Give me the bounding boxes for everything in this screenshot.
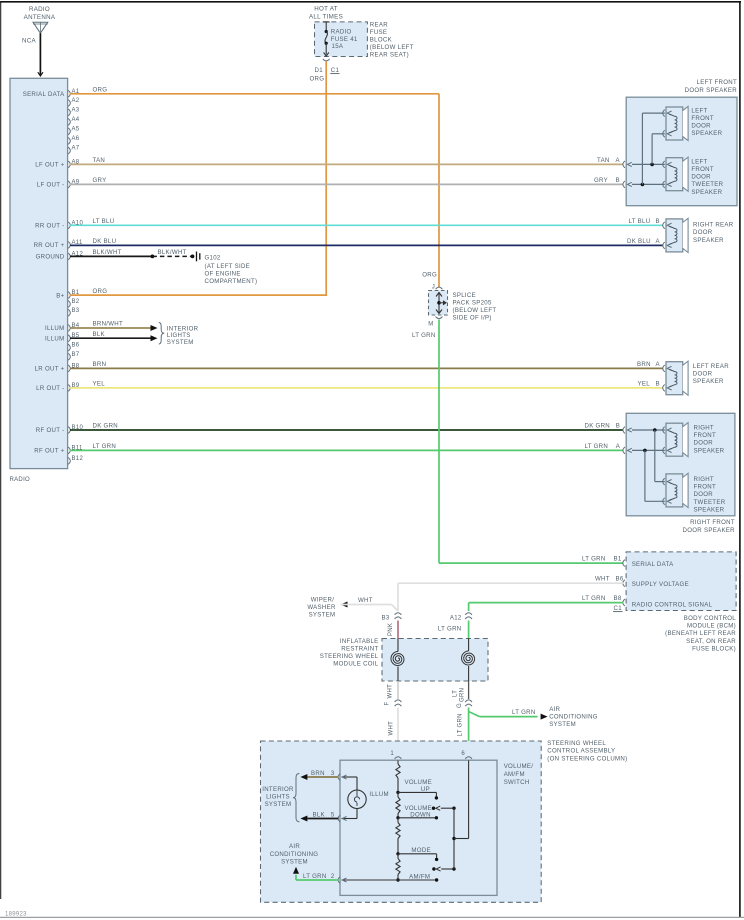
- svg-text:RR OUT -: RR OUT -: [35, 223, 64, 230]
- svg-text:DOOR: DOOR: [693, 229, 713, 236]
- steering wheel control assembly (dashed box): [261, 740, 628, 903]
- svg-text:FUSE BLOCK): FUSE BLOCK): [692, 645, 736, 652]
- svg-text:YEL: YEL: [638, 381, 651, 388]
- svg-text:B: B: [656, 218, 660, 225]
- switch pin 3 connector: [331, 771, 347, 780]
- svg-text:RADIO: RADIO: [29, 6, 50, 13]
- am/fm switch contact: [342, 873, 439, 881]
- svg-text:SERIAL DATA: SERIAL DATA: [632, 561, 674, 568]
- wiper washer system branch WHT: [307, 597, 398, 619]
- internal wiring right front speakers: [632, 428, 665, 501]
- wire LT GRN splice to BCM serial data: [439, 320, 623, 564]
- body control module BCM (dashed box): [626, 552, 736, 611]
- wire A8 TAN to left front door speaker: [70, 157, 623, 164]
- svg-text:DOOR SPEAKER: DOOR SPEAKER: [685, 87, 738, 94]
- svg-text:5: 5: [331, 813, 335, 819]
- radio pin A6: [68, 136, 80, 144]
- svg-text:SEAT, ON REAR: SEAT, ON REAR: [686, 638, 736, 645]
- svg-text:B8: B8: [614, 595, 622, 602]
- svg-text:LT BLU: LT BLU: [629, 218, 651, 225]
- wire A12 BLK/WHT ground lead: [70, 249, 194, 258]
- BCM pin B8 connector: [623, 599, 625, 606]
- svg-text:DK BLU: DK BLU: [93, 238, 117, 245]
- radio pin A12: [68, 251, 83, 259]
- interior lights system label (steering): [262, 774, 299, 822]
- ground G102: [197, 252, 258, 286]
- resistor R1: [396, 764, 400, 778]
- radio connector block (RADIO): [10, 78, 68, 483]
- svg-text:LR OUT +: LR OUT +: [35, 366, 65, 373]
- svg-text:LT GRN: LT GRN: [585, 443, 609, 450]
- svg-text:REAR SEAT): REAR SEAT): [370, 52, 409, 59]
- svg-text:RF OUT +: RF OUT +: [34, 448, 64, 455]
- resistor ladder top segment: [397, 761, 399, 765]
- svg-text:DOOR: DOOR: [691, 123, 711, 130]
- svg-text:DOOR: DOOR: [691, 174, 711, 181]
- svg-text:B1: B1: [614, 556, 622, 563]
- splice pack SP205: [412, 287, 448, 339]
- BCM pin B1 connector: [623, 560, 625, 567]
- svg-text:C1: C1: [331, 67, 340, 74]
- svg-text:189923: 189923: [5, 912, 27, 918]
- svg-text:FRONT: FRONT: [694, 484, 717, 491]
- wire B4 BRN/WHT to interior lights: [70, 321, 158, 331]
- coil spiral right (clockspring): [462, 639, 475, 682]
- svg-text:A3: A3: [72, 107, 80, 113]
- svg-text:SPEAKER: SPEAKER: [694, 506, 725, 513]
- radio pin label RR OUT -: [35, 223, 64, 230]
- lamp ILLUM: [348, 790, 389, 808]
- svg-text:A: A: [656, 361, 661, 368]
- svg-text:MODE: MODE: [411, 847, 430, 854]
- svg-text:B: B: [616, 177, 620, 184]
- svg-text:LT GRN: LT GRN: [303, 873, 327, 880]
- connector B at right front speaker box: [623, 427, 632, 434]
- node mode tap: [396, 852, 399, 855]
- svg-text:STEERING WHEEL: STEERING WHEEL: [320, 653, 379, 660]
- left front door tweeter speaker: [663, 157, 724, 196]
- svg-text:B: B: [616, 423, 620, 430]
- svg-text:(BELOW LEFT: (BELOW LEFT: [370, 44, 414, 51]
- svg-text:GRY: GRY: [93, 177, 107, 184]
- svg-text:ORG: ORG: [422, 272, 437, 279]
- left rear door speaker: [663, 361, 730, 395]
- svg-text:BLK/WHT: BLK/WHT: [158, 249, 187, 256]
- svg-text:B12: B12: [72, 456, 84, 462]
- svg-text:FUSE 41: FUSE 41: [331, 36, 358, 43]
- switch pin 2 connector: [331, 874, 347, 883]
- svg-text:SIDE OF I/P): SIDE OF I/P): [453, 315, 492, 322]
- svg-text:WHT: WHT: [358, 597, 373, 604]
- wire antenna NCA lead: [38, 33, 43, 76]
- svg-text:DOOR SPEAKER: DOOR SPEAKER: [683, 527, 736, 534]
- svg-text:B+: B+: [56, 292, 64, 299]
- svg-text:B2: B2: [72, 299, 80, 305]
- rear fuse block (dashed box): [309, 6, 367, 57]
- svg-text:GRY: GRY: [594, 177, 608, 184]
- radio pin B7: [68, 352, 80, 360]
- svg-text:(BELOW LEFT: (BELOW LEFT: [453, 307, 497, 314]
- splice pack SP205 note: [453, 292, 497, 322]
- radio pin B11: [68, 445, 83, 453]
- svg-text:2: 2: [331, 874, 335, 880]
- radio pin B10: [68, 425, 83, 433]
- wire B5 BLK to interior lights: [70, 331, 158, 341]
- resistor R3: [396, 823, 400, 839]
- svg-text:J: J: [432, 285, 435, 291]
- svg-text:LEFT FRONT: LEFT FRONT: [697, 79, 737, 86]
- svg-text:PNK: PNK: [388, 623, 394, 636]
- connector G: [465, 700, 472, 706]
- radio pin label ILLUM: [45, 335, 64, 342]
- svg-text:REAR: REAR: [370, 22, 388, 29]
- BCM location note: [665, 615, 736, 652]
- svg-text:CONDITIONING: CONDITIONING: [549, 714, 598, 721]
- svg-text:LF OUT -: LF OUT -: [37, 182, 65, 189]
- svg-text:LT GRN: LT GRN: [512, 709, 536, 716]
- svg-text:GROUND: GROUND: [36, 254, 65, 261]
- radio pin B8: [68, 363, 80, 371]
- wire ORG vertical A1 to splice SP205: [422, 94, 439, 291]
- radio pin label SERIAL DATA: [23, 91, 65, 98]
- svg-text:RESTRAINT: RESTRAINT: [341, 645, 378, 652]
- svg-text:SYSTEM: SYSTEM: [265, 801, 292, 808]
- svg-text:AIR: AIR: [289, 843, 300, 850]
- connector B at left front speaker box: [623, 181, 632, 188]
- svg-text:LT GRN: LT GRN: [438, 626, 462, 633]
- svg-text:WHT: WHT: [388, 721, 394, 736]
- svg-text:BLK: BLK: [313, 811, 325, 818]
- svg-text:A: A: [616, 443, 621, 450]
- radio pin A4: [68, 117, 80, 125]
- node volume up tap: [396, 791, 399, 794]
- svg-text:GRN: GRN: [460, 688, 466, 702]
- left front door speaker (woofer): [663, 106, 723, 140]
- svg-text:FRONT: FRONT: [691, 166, 714, 173]
- svg-text:A5: A5: [72, 126, 80, 132]
- switch common bus: [452, 761, 468, 870]
- radio pin label LR OUT +: [35, 366, 65, 373]
- wire R1 to volume-up tap: [397, 778, 399, 792]
- radio pin A5: [68, 126, 80, 134]
- svg-text:A7: A7: [72, 146, 80, 152]
- resistor R4: [396, 859, 400, 875]
- wire WHT to steering wheel switch pin 1: [388, 708, 398, 757]
- svg-text:A: A: [616, 157, 621, 164]
- svg-text:RADIO: RADIO: [331, 29, 352, 36]
- wire LT GRN to steering wheel switch pin 6: [458, 708, 469, 757]
- coil spiral left (clockspring): [391, 639, 404, 682]
- svg-text:(ON STEERING COLUMN): (ON STEERING COLUMN): [547, 755, 627, 762]
- svg-text:DOOR: DOOR: [694, 491, 714, 498]
- svg-text:BODY CONTROL: BODY CONTROL: [684, 615, 737, 622]
- resistor R2: [396, 797, 400, 814]
- radio pin label B+: [56, 292, 64, 299]
- svg-text:SPEAKER: SPEAKER: [691, 189, 722, 196]
- svg-text:M: M: [428, 322, 433, 328]
- wire B9 YEL to left rear door speaker: [70, 381, 663, 388]
- svg-text:B3: B3: [72, 308, 80, 314]
- svg-text:SUPPLY VOLTAGE: SUPPLY VOLTAGE: [632, 581, 689, 588]
- svg-text:RIGHT REAR: RIGHT REAR: [693, 222, 734, 229]
- svg-text:A2: A2: [72, 98, 80, 104]
- radio pin label LR OUT -: [36, 385, 64, 392]
- svg-text:ALL TIMES: ALL TIMES: [309, 14, 343, 21]
- svg-text:YEL: YEL: [93, 381, 106, 388]
- branch LT GRN to air conditioning system: [469, 706, 598, 728]
- svg-text:B: B: [656, 381, 660, 388]
- radio pin A8: [68, 159, 80, 167]
- svg-text:SWITCH: SWITCH: [504, 779, 530, 786]
- left front door speaker assembly box: [626, 79, 737, 206]
- connector A at left front speaker box: [623, 161, 632, 168]
- radio pin B3: [68, 308, 80, 316]
- radio pin A1: [68, 89, 80, 97]
- svg-text:ORG: ORG: [93, 288, 108, 295]
- svg-text:B6: B6: [72, 343, 80, 349]
- svg-text:ILLUM: ILLUM: [45, 325, 64, 332]
- svg-text:LT BLU: LT BLU: [93, 218, 115, 225]
- svg-text:SYSTEM: SYSTEM: [281, 858, 308, 865]
- svg-text:CONDITIONING: CONDITIONING: [270, 851, 319, 858]
- svg-text:TAN: TAN: [597, 157, 610, 164]
- svg-text:ORG: ORG: [310, 76, 325, 83]
- internal wiring left front speakers: [632, 113, 665, 186]
- svg-text:A: A: [656, 238, 661, 245]
- coil pigtail F WHT: [385, 681, 399, 706]
- connector F: [395, 700, 402, 706]
- svg-text:LT GRN: LT GRN: [582, 556, 606, 563]
- wire B1 ORG radio B+ to fuse: [70, 288, 327, 295]
- volume down switch contact: [398, 805, 456, 820]
- inflatable restraint steering wheel module coil (dashed box): [320, 638, 488, 681]
- svg-text:TWEETER: TWEETER: [691, 181, 723, 188]
- interior lights system brace and label: [159, 323, 199, 347]
- svg-text:A12: A12: [450, 616, 462, 622]
- svg-text:RIGHT: RIGHT: [694, 476, 714, 483]
- svg-text:DOOR: DOOR: [694, 440, 714, 447]
- svg-text:HOT AT: HOT AT: [314, 6, 338, 13]
- svg-text:CONTROL ASSEMBLY: CONTROL ASSEMBLY: [547, 748, 615, 755]
- svg-text:LT GRN: LT GRN: [412, 332, 436, 339]
- svg-text:SYSTEM: SYSTEM: [167, 339, 194, 346]
- wire PNK B3 to module coil: [388, 621, 398, 639]
- svg-text:LT GRN: LT GRN: [582, 595, 606, 602]
- connector B3 steering wheel module coil: [382, 613, 402, 622]
- svg-text:RADIO: RADIO: [10, 477, 31, 483]
- wire lamp to pin 3: [342, 777, 358, 790]
- svg-text:WASHER: WASHER: [307, 604, 336, 611]
- node am/fm tap: [396, 878, 399, 881]
- mode switch contact: [398, 847, 456, 871]
- wire A1 ORG serial data horizontal: [70, 87, 439, 94]
- radio pin B6: [68, 343, 80, 351]
- svg-text:LEFT REAR: LEFT REAR: [693, 363, 729, 370]
- wire LT GRN A12 to module coil: [438, 621, 469, 639]
- svg-text:B3: B3: [382, 616, 390, 622]
- svg-text:G: G: [457, 703, 463, 708]
- BCM pin B6 connector: [623, 580, 625, 587]
- wire B10 DK GRN to right front door speaker: [70, 423, 623, 430]
- svg-text:MODULE COIL: MODULE COIL: [333, 661, 379, 668]
- svg-text:FUSE: FUSE: [370, 29, 387, 36]
- wire LT GRN BCM B8 to coil connector A12: [469, 595, 624, 611]
- svg-text:WHT: WHT: [388, 684, 394, 699]
- svg-text:BRN: BRN: [311, 770, 325, 777]
- svg-text:AM/FM: AM/FM: [504, 771, 525, 778]
- svg-text:INFLATABLE: INFLATABLE: [340, 638, 379, 645]
- switch pin 1 connector: [390, 751, 401, 759]
- radio pin label GROUND: [36, 254, 65, 261]
- footer sheet number 189923: [5, 912, 27, 918]
- radio antenna symbol: [22, 6, 56, 45]
- wire ORG fuse C1 to radio B1 (vertical): [325, 62, 327, 296]
- BCM connector C1 label: [613, 605, 623, 612]
- svg-text:BRN: BRN: [93, 361, 107, 368]
- svg-text:DOOR: DOOR: [693, 371, 713, 378]
- radio pin A9: [68, 179, 80, 187]
- wire lamp to pin 5: [342, 809, 358, 819]
- svg-text:FRONT: FRONT: [694, 432, 717, 439]
- svg-text:C1: C1: [614, 605, 623, 612]
- radio pin label RR OUT +: [34, 242, 65, 249]
- svg-text:FRONT: FRONT: [691, 115, 714, 122]
- svg-text:SYSTEM: SYSTEM: [549, 721, 576, 728]
- switch pin 6 connector: [461, 751, 472, 759]
- wire R2 to volume-down tap: [397, 792, 399, 817]
- svg-text:1: 1: [390, 751, 394, 757]
- wire A9 GRY to left front door speaker: [70, 177, 623, 184]
- radio pin B5: [68, 333, 80, 341]
- svg-text:LIGHTS: LIGHTS: [266, 794, 290, 801]
- svg-text:DK GRN: DK GRN: [93, 423, 119, 430]
- svg-text:A6: A6: [72, 136, 80, 142]
- svg-text:SPEAKER: SPEAKER: [693, 237, 724, 244]
- svg-text:NCA: NCA: [22, 38, 37, 45]
- svg-text:ANTENNA: ANTENNA: [24, 14, 56, 21]
- svg-text:15A: 15A: [332, 43, 344, 50]
- radio pin B1: [68, 290, 80, 298]
- svg-text:TAN: TAN: [93, 157, 106, 164]
- svg-text:BLOCK: BLOCK: [370, 37, 392, 44]
- svg-text:ILLUM: ILLUM: [45, 335, 64, 342]
- switch pin 5 connector: [331, 813, 347, 822]
- svg-text:LT: LT: [452, 690, 458, 697]
- svg-text:LT GRN: LT GRN: [458, 713, 464, 736]
- svg-text:6: 6: [461, 751, 465, 757]
- wire WHT BCM B6 to coil connector B3: [398, 576, 624, 611]
- svg-text:LF OUT +: LF OUT +: [35, 162, 64, 169]
- coil pigtail G LT GRN: [452, 681, 468, 708]
- fuse RADIO FUSE 41 15A: [323, 22, 358, 56]
- svg-text:LEFT: LEFT: [691, 158, 707, 165]
- connector C1 below fuse block: [310, 59, 340, 83]
- wire B8 BRN to left rear door speaker: [70, 361, 663, 368]
- svg-text:(AT LEFT SIDE: (AT LEFT SIDE: [205, 263, 251, 270]
- svg-text:DK BLU: DK BLU: [627, 238, 651, 245]
- svg-text:INTERIOR: INTERIOR: [262, 786, 294, 793]
- connector A12 steering wheel module coil: [450, 613, 472, 622]
- svg-text:AIR: AIR: [549, 706, 560, 713]
- svg-text:VOLUME/: VOLUME/: [504, 763, 534, 770]
- svg-text:A4: A4: [72, 117, 80, 123]
- right front door speaker (woofer): [663, 423, 725, 457]
- svg-text:LT GRN: LT GRN: [93, 443, 117, 450]
- node volume down tap: [396, 816, 399, 819]
- radio pin B9: [68, 383, 80, 391]
- air conditioning system branch (steering): [270, 843, 339, 880]
- svg-text:F: F: [385, 702, 391, 706]
- svg-text:RADIO CONTROL SIGNAL: RADIO CONTROL SIGNAL: [632, 602, 713, 609]
- svg-text:RF OUT -: RF OUT -: [36, 427, 65, 434]
- right front door tweeter speaker: [663, 473, 726, 513]
- wire B11 LT GRN to right front door speaker: [70, 443, 623, 450]
- volume up switch contact: [398, 779, 438, 800]
- radio pin A10: [68, 220, 83, 228]
- svg-text:ORG: ORG: [93, 87, 108, 94]
- wire A10 LT BLU to right rear door speaker: [70, 218, 663, 225]
- svg-text:B6: B6: [616, 576, 624, 583]
- svg-text:SPEAKER: SPEAKER: [693, 378, 724, 385]
- svg-text:SYSTEM: SYSTEM: [309, 612, 336, 619]
- radio pin A11: [68, 240, 83, 248]
- radio pin B12: [68, 456, 83, 464]
- right rear door speaker: [663, 218, 734, 252]
- wire BRN pin 3 to interior lights: [300, 770, 338, 780]
- svg-text:WIPER/: WIPER/: [311, 597, 334, 604]
- wire R4 to am/fm tap: [397, 854, 399, 880]
- svg-text:RIGHT FRONT: RIGHT FRONT: [690, 519, 735, 526]
- connector A at right front speaker box: [623, 447, 632, 454]
- svg-text:D1: D1: [315, 67, 324, 74]
- fuse block note REAR FUSE BLOCK: [370, 22, 414, 59]
- svg-text:MODULE (BCM): MODULE (BCM): [687, 623, 736, 630]
- svg-text:AM/FM: AM/FM: [409, 873, 430, 880]
- svg-text:DK GRN: DK GRN: [585, 423, 611, 430]
- svg-text:TWEETER: TWEETER: [694, 499, 726, 506]
- svg-text:BLK/WHT: BLK/WHT: [93, 249, 122, 256]
- wire A11 DK BLU to right rear door speaker: [70, 238, 663, 245]
- svg-text:BLK: BLK: [93, 331, 105, 338]
- svg-text:3: 3: [331, 771, 335, 777]
- svg-text:OF ENGINE: OF ENGINE: [205, 271, 241, 278]
- svg-text:(BENEATH LEFT REAR: (BENEATH LEFT REAR: [665, 630, 736, 637]
- svg-text:BRN: BRN: [637, 361, 651, 368]
- svg-text:RR OUT +: RR OUT +: [34, 242, 65, 249]
- radio pin label RF OUT +: [34, 448, 64, 455]
- svg-text:WHT: WHT: [595, 576, 610, 583]
- svg-text:SPEAKER: SPEAKER: [694, 447, 725, 454]
- svg-text:SERIAL DATA: SERIAL DATA: [23, 91, 65, 98]
- radio pin label LF OUT -: [37, 182, 65, 189]
- svg-text:SPLICE: SPLICE: [453, 292, 476, 299]
- svg-text:LR OUT -: LR OUT -: [36, 385, 64, 392]
- radio pin label ILLUM: [45, 325, 64, 332]
- radio pin A3: [68, 107, 80, 115]
- svg-text:ILLUM: ILLUM: [369, 791, 388, 798]
- right front door speaker assembly box: [626, 413, 735, 534]
- radio pin A2: [68, 98, 80, 106]
- wire R3 to mode tap: [397, 818, 399, 854]
- radio pin A7: [68, 146, 80, 154]
- radio pin label LF OUT +: [35, 162, 64, 169]
- svg-text:STEERING WHEEL: STEERING WHEEL: [547, 740, 606, 747]
- svg-text:B7: B7: [72, 352, 80, 358]
- svg-text:G102: G102: [205, 255, 221, 262]
- radio pin B4: [68, 323, 80, 331]
- svg-text:RIGHT: RIGHT: [694, 425, 714, 432]
- volume am/fm switch box: [340, 760, 533, 895]
